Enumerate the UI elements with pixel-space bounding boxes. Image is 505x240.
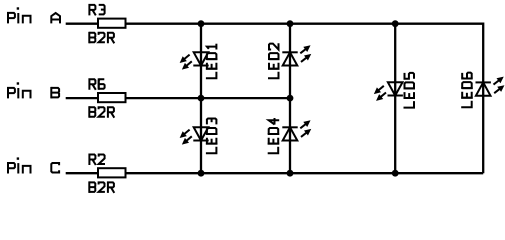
label LED5 xyxy=(404,73,416,108)
resistor R3 name label xyxy=(89,5,104,16)
label LED4 xyxy=(268,118,280,153)
node B junction col2 xyxy=(287,95,294,102)
wire column LED1/LED3 xyxy=(200,24,202,174)
LED symbol LED1 xyxy=(178,52,209,72)
node A junction col1 xyxy=(198,20,205,27)
pin label Pin C xyxy=(8,157,59,173)
wire net A: row A + right side down xyxy=(66,24,484,174)
node B junction col1 xyxy=(198,95,205,102)
wire column LED2/LED4 xyxy=(289,24,291,174)
resistor R6 name label xyxy=(89,78,104,90)
resistor R2 name label xyxy=(89,155,105,166)
resistor R6 body xyxy=(98,93,126,102)
pin label Pin B xyxy=(8,82,59,98)
LED symbol LED6 xyxy=(476,74,505,96)
wire column LED5 xyxy=(394,24,396,174)
resistor R2 body xyxy=(98,168,126,177)
label LED1 xyxy=(206,44,218,79)
node A junction col2 xyxy=(287,20,294,27)
node C junction col1 xyxy=(198,170,205,177)
label LED2 xyxy=(268,43,280,78)
wire net C: row C xyxy=(66,172,484,174)
node C junction col2 xyxy=(287,170,294,177)
label LED6 xyxy=(461,73,473,108)
resistor R3 value 82R xyxy=(89,32,114,44)
pin label Pin A xyxy=(8,7,60,23)
LED symbol LED2 xyxy=(282,43,313,66)
node C junction col3 xyxy=(392,170,399,177)
node A junction col3 xyxy=(392,20,399,27)
LED symbol LED4 xyxy=(282,118,313,141)
resistor R3 body xyxy=(98,19,126,28)
LED symbol LED3 xyxy=(178,127,209,147)
resistor R6 value 82R xyxy=(89,106,114,118)
LED symbol LED5 xyxy=(372,82,403,103)
resistor R2 value 82R xyxy=(89,181,114,193)
wire net B: row B xyxy=(66,97,290,99)
label LED3 xyxy=(206,119,218,154)
